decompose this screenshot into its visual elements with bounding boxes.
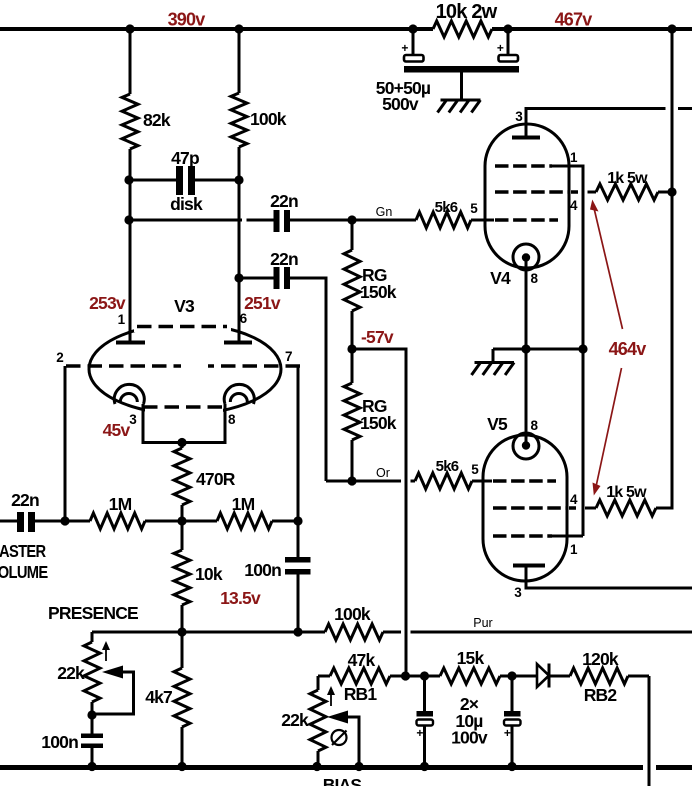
svg-text:+: + [497,41,504,55]
node junction dot top rail x413 [408,24,417,33]
wire -57v to bias feed corner [352,349,406,676]
cathode V5 dot [522,441,530,449]
node junction dot bias cap1 [420,671,429,680]
svg-text:500v: 500v [382,94,419,114]
wire RG lower to Or node [351,440,354,481]
capacitor 10u second negative plate [504,711,521,717]
resistor 10k 2w [433,21,492,37]
svg-text:470R: 470R [196,469,236,489]
svg-text:100k: 100k [250,109,287,129]
resistor 1M right [217,513,272,529]
svg-text:82k: 82k [143,110,171,130]
wire presence pot top lead [91,632,94,642]
node junction dot bottom rail bias pot [312,762,321,771]
wire Or node to 5k6 lower [326,480,415,483]
wire 470R to 1M node [181,505,184,521]
node junction dot presence pot bottom [87,710,96,719]
tube V5 envelope [483,435,567,581]
wire bias pot bottom [317,751,320,766]
wire 1k5w lower to screen rail corner [656,29,672,508]
node junction dot 22n upper tap [124,215,133,224]
resistor RG 150k lower [351,349,354,383]
screwdriver adjust symbol [332,730,347,745]
wire top 390v/467v supply rail [0,27,692,31]
node junction dot input [60,516,69,525]
grid V5 row2 dashed [493,506,576,510]
wire bias cap1 top lead [423,676,426,711]
wire V4 plate to right edge [526,109,692,137]
tube V3 envelope [89,324,281,414]
svg-text:Or: Or [376,466,390,480]
ground cathode node [472,363,515,376]
svg-text:150k: 150k [360,282,397,302]
svg-text:1k 5w: 1k 5w [607,170,648,187]
svg-text:22k: 22k [281,710,309,730]
plate V4 bar [512,136,540,140]
wire 5k6 lower to V5 pin5 [472,480,492,483]
svg-text:253v: 253v [89,293,126,313]
svg-text:45v: 45v [103,420,131,440]
resistor 5k6 lower [415,473,472,489]
wire x130 rail to 82k [129,29,132,94]
grid V4 row2 dashed [495,190,578,194]
wire 1k5w upper to rail [658,191,672,194]
svg-text:47p: 47p [171,148,199,168]
wire 22n lower to Or corner [290,278,326,481]
svg-text:VOLUME: VOLUME [0,563,48,582]
wire bias cap2 bottom lead [511,726,514,767]
wire bias rail segments [318,675,649,678]
wire 1M left to center node [145,520,182,523]
wire 5k6 to V4 pin5 [471,219,494,222]
wire V3 pin2 grid drop [64,366,67,521]
resistor 47k RB1 [330,668,390,684]
wire right filter cap lead [507,29,510,55]
grid V3 right dashed [208,364,300,368]
capacitor 100n right plates [285,557,311,563]
cw arrow presence pot [105,647,107,661]
ground filter cap [438,100,481,113]
wire left filter cap lead [412,29,415,55]
plate V3 pin6 bar [224,341,252,345]
wire V3 bottom dashed between cathodes [143,405,226,409]
svg-text:22n: 22n [11,490,39,510]
wire V5 pin1 to suppressor drop [552,535,583,538]
node junction dot screen rail upper [667,187,676,196]
grid V5 row1 dashed [483,480,492,483]
wire V3 pin3 cathode drop [142,404,145,441]
wire 100n presence to rail [91,748,94,766]
wire 120k drop to bottom edge [648,676,651,786]
svg-text:47k: 47k [348,650,376,670]
svg-text:22n: 22n [270,191,298,211]
svg-text:10k 2w: 10k 2w [436,1,498,23]
node junction dot 47p right [234,175,243,184]
resistor 1k 5w lower [596,500,656,516]
grid V5 row3 dashes [493,534,552,538]
wire input node to 1M left [65,520,90,523]
svg-text:1M: 1M [109,494,132,514]
node junction dot suppressor [578,344,587,353]
capacitor 50+50u common negative plate [404,66,519,73]
svg-text:-57v: -57v [361,327,394,347]
resistor RG 150k upper [351,220,354,250]
wire V4 cathode drop [525,258,528,446]
wire cathode connector [142,441,227,444]
wiper arrow presence pot [102,666,123,679]
svg-text:5k6: 5k6 [435,199,458,216]
cathode V3 right arcs [224,384,254,404]
wire V3 pin7 grid drop [297,366,300,521]
wire 22n upper to Gn node [290,219,352,222]
wire 1M right to pin7 node [272,520,298,523]
grid V4 row3 stub [483,219,494,222]
wire pin7 node to 100n [297,521,300,557]
cathode V3 left arcs [114,384,144,404]
wire 10k to presence wire [181,605,184,632]
capacitor 22n upper plates [274,210,280,232]
wire 100k to V3 pin6 plate [238,147,241,342]
svg-text:5k6: 5k6 [436,458,459,475]
wire x239 rail to 100k [238,29,241,93]
plate V5 bar [513,564,545,568]
wire 47p right [195,179,239,182]
wire bottom ground rail [0,765,692,770]
wire ground stub [492,349,495,363]
wire 100n to presence wire [297,575,300,633]
wire 47p left [129,179,176,182]
diode bias rectifier [537,664,549,687]
wire 22n input to node [35,520,65,523]
svg-text:disk: disk [170,194,203,214]
svg-text:V3: V3 [174,296,195,316]
wire V4 pin1 to suppressor drop [552,166,583,536]
svg-text:100n: 100n [41,732,78,752]
resistor 100k feedback [325,624,383,640]
node junction dot Gn [347,215,356,224]
wire presence pot bottom lead [91,702,94,734]
node junction dot bottom rail 4k7 [177,762,186,771]
resistor 1M left [90,513,145,529]
capacitor 100n presence plates [81,734,103,739]
node junction dot 22n lower tap [234,273,243,282]
resistor 1k 5w upper [596,184,658,200]
node junction dot presence x298 [293,627,302,636]
node junction dot top rail x239 [234,24,243,33]
node junction dot bottom rail bias cap2 [507,762,516,771]
node junction dot cathode V4V5 [521,344,530,353]
node junction dot top rail x508 [503,24,512,33]
capacitor 22n input plates [17,512,24,532]
resistor 10k [181,521,184,550]
node junction dot bottom rail bias cap1 [420,762,429,771]
node junction dot -57v [347,344,356,353]
svg-text:22k: 22k [57,663,85,683]
resistor 82k [122,94,138,149]
svg-text:V5: V5 [487,414,508,434]
wire Pur line [411,631,692,634]
arrow 464v lower [596,368,622,489]
wire 82k to V3 pin1 plate [129,149,132,342]
svg-text:120k: 120k [582,649,619,669]
svg-text:467v: 467v [555,10,593,30]
svg-text:251v: 251v [244,293,281,313]
white mask V3 bottom [145,402,223,417]
wire V4 pin4 to screen resistor [588,191,597,194]
plate V3 pin1 bar [116,341,145,345]
wire filter cap to ground [460,72,463,100]
svg-text:10k: 10k [195,564,223,584]
node junction dot cathode 470R [177,438,186,447]
capacitor 10u first positive plate [417,720,434,726]
wire cathode node horizontal [493,348,583,351]
svg-text:BIAS: BIAS [323,775,362,786]
tube V4 envelope [485,124,569,268]
node junction dot bias RB1 [401,671,410,680]
wire input from master volume [0,520,17,523]
svg-text:1k 5w: 1k 5w [606,484,647,501]
cw arrow bias pot [330,692,332,706]
cathode V4 circle [513,244,539,270]
grid V3 left dashed [66,364,181,368]
svg-text:464v: 464v [609,339,647,359]
svg-text:150k: 150k [360,413,397,433]
cathode V5 circle [513,433,539,459]
svg-text:Pur: Pur [473,616,492,630]
grid V4 row3 dashes [495,218,558,222]
cathode V4 dot [522,253,530,261]
svg-text:4k7: 4k7 [145,687,172,707]
svg-text:100n: 100n [244,560,281,580]
svg-text:PRESENCE: PRESENCE [48,603,138,623]
resistor 5k6 upper [416,212,471,228]
resistor 470R [174,448,190,505]
capacitor 10u first negative plate [417,711,434,717]
arrow 464v upper [594,206,623,329]
grid V4 row1 dashed [495,164,552,168]
svg-text:22n: 22n [270,249,298,269]
node junction dot 1M center [177,516,186,525]
node junction dot 1M right [293,516,302,525]
svg-text:100v: 100v [451,728,488,748]
node junction dot Or [347,476,356,485]
potentiometer 22k bias [317,676,320,690]
white mask V3 top [134,319,231,332]
svg-text:2: 2 [56,350,63,365]
wire 22n lower left segment [239,277,274,280]
wire 100k to Pur crossover [383,631,401,634]
capacitor 50+50u left positive plate [404,55,424,62]
resistor 4k7 [181,632,184,668]
node junction dot presence x182 [177,627,186,636]
svg-text:RB2: RB2 [584,685,618,705]
svg-text:V4: V4 [490,268,511,288]
wire center node to 1M right [182,520,217,523]
wire 22n upper left segment [129,219,274,222]
node junction dot bias cap2 [507,671,516,680]
svg-text:Gn: Gn [376,205,393,219]
svg-text:100k: 100k [334,604,371,624]
wire presence horizontal [92,631,325,634]
node junction dot bottom rail presence 100n [87,762,96,771]
wiper arrow bias pot [327,711,348,724]
wire V5 plate to right edge [526,567,692,588]
wire V5 pin4 to screen resistor [585,507,596,510]
svg-text:RB1: RB1 [344,684,378,704]
potentiometer 22k presence [84,642,100,702]
resistor 100k plate load [231,93,247,147]
wire RG upper to -57v node [351,311,354,349]
svg-text:1M: 1M [232,494,255,514]
node junction dot top rail x672 [667,24,676,33]
svg-text:MASTER: MASTER [0,542,46,561]
capacitor 47p disk plates [176,166,183,195]
resistor 15k [440,668,500,684]
wire 470R top lead [181,443,184,449]
svg-text:+: + [416,726,423,740]
resistor 120k RB2 [570,668,628,684]
wire bias cap2 top lead [511,676,514,711]
node junction dot bottom rail bias wiper [354,762,363,771]
svg-text:13.5v: 13.5v [220,588,261,608]
svg-text:15k: 15k [457,648,485,668]
wire Gn node to 5k6 [352,219,416,222]
svg-text:390v: 390v [168,10,206,30]
svg-text:7: 7 [285,349,292,364]
wire V3 pin8 cathode drop [224,404,227,441]
node junction dot 47p left [124,175,133,184]
wire 4k7 to rail [181,727,184,766]
wire V3 top dashed envelope [137,325,227,329]
capacitor 10u second positive plate [504,720,521,726]
wire bias cap1 bottom lead [423,726,426,767]
capacitor 50+50u right positive plate [499,55,519,62]
svg-text:+: + [401,41,408,55]
node junction dot top rail x130 [125,24,134,33]
svg-text:+: + [504,726,511,740]
grid V5 row1 dashes [493,479,556,483]
capacitor 22n lower plates [274,267,280,289]
